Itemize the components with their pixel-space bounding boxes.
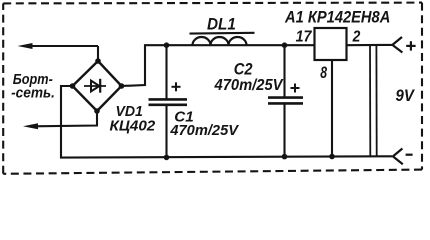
C1 polarity plus xyxy=(172,82,181,91)
C2 polarity plus xyxy=(291,84,300,93)
node bridge bottom xyxy=(94,108,100,114)
svg-text:КЦ402: КЦ402 xyxy=(110,118,156,134)
svg-text:DL1: DL1 xyxy=(207,15,236,34)
regulator A1 body xyxy=(315,28,347,60)
node C1 top xyxy=(164,42,170,48)
plus output sign xyxy=(406,41,415,50)
wire C1 top lead xyxy=(165,45,167,99)
enclosure dashed border xyxy=(3,3,422,174)
node C1 bottom xyxy=(164,155,170,161)
wire bridge right up to top rail xyxy=(122,45,315,86)
svg-text:-сеть.: -сеть. xyxy=(11,85,55,101)
wire drop to bridge top xyxy=(97,46,99,62)
wire C1 bottom lead xyxy=(165,105,167,158)
connector socket minus xyxy=(393,149,403,165)
svg-text:8: 8 xyxy=(320,64,327,82)
node C2 bottom xyxy=(282,154,288,160)
svg-text:17: 17 xyxy=(296,29,313,46)
connector socket plus xyxy=(392,37,402,53)
wire pin 2 output xyxy=(347,44,393,46)
node bridge left xyxy=(70,83,76,89)
rectifier bridge VD1 diamond xyxy=(73,61,122,111)
cable line left xyxy=(369,45,371,156)
capacitor C2 plates xyxy=(268,96,303,99)
node C2 top xyxy=(282,42,288,48)
capacitor C1 plates xyxy=(149,98,188,101)
svg-text:9V: 9V xyxy=(396,86,416,105)
wire C2 top lead xyxy=(283,45,285,97)
node bridge right xyxy=(119,83,125,89)
inductor DL1 coil xyxy=(193,37,247,45)
wire pin 8 to ground rail xyxy=(331,60,333,157)
svg-text:2: 2 xyxy=(352,29,361,46)
svg-text:470m/25V: 470m/25V xyxy=(169,122,239,139)
inductor DL1 core line xyxy=(190,32,255,35)
cable line right xyxy=(375,45,377,156)
wire bridge bottom to lower input xyxy=(33,111,97,126)
svg-text:C2: C2 xyxy=(234,61,253,79)
node pin 8 ground xyxy=(329,154,335,160)
arrow lower input xyxy=(23,123,38,129)
diode inside VD1 xyxy=(84,79,106,93)
minus output sign xyxy=(406,154,413,156)
svg-text:А1 КР142ЕН8А: А1 КР142ЕН8А xyxy=(284,7,390,26)
wire upper input with arrow xyxy=(28,45,98,47)
wire C2 bottom lead xyxy=(283,103,285,156)
svg-text:470m/25V: 470m/25V xyxy=(214,77,284,94)
node bridge top xyxy=(95,58,101,64)
wire bridge left to ground rail xyxy=(61,86,392,158)
